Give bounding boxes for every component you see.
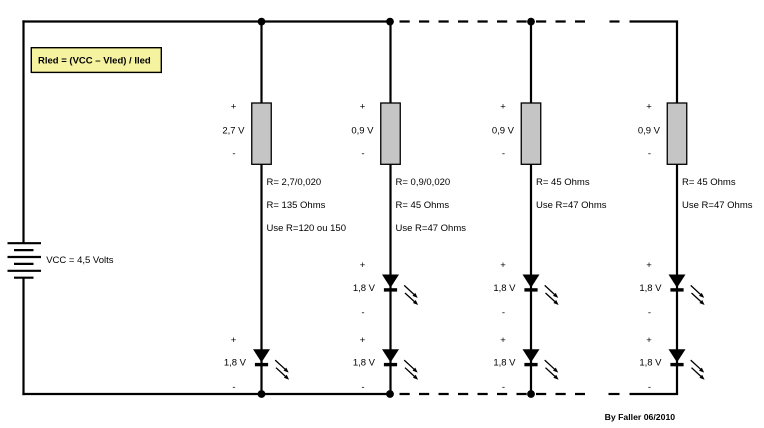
- svg-text:-: -: [361, 307, 364, 318]
- svg-text:+: +: [360, 102, 366, 113]
- svg-text:+: +: [500, 335, 506, 346]
- svg-text:Use R=47 Ohms: Use R=47 Ohms: [536, 200, 607, 211]
- svg-text:-: -: [648, 149, 651, 160]
- svg-text:+: +: [646, 102, 652, 113]
- svg-text:Use R=47 Ohms: Use R=47 Ohms: [396, 223, 467, 234]
- svg-text:1,8 V: 1,8 V: [493, 358, 516, 369]
- svg-text:-: -: [232, 149, 235, 160]
- svg-text:0,9 V: 0,9 V: [638, 126, 661, 137]
- svg-text:1,8 V: 1,8 V: [224, 358, 247, 369]
- svg-text:+: +: [360, 335, 366, 346]
- svg-text:R= 45 Ohms: R= 45 Ohms: [396, 200, 450, 211]
- svg-text:Rled = (VCC – Vled) / Iled: Rled = (VCC – Vled) / Iled: [38, 56, 151, 67]
- svg-text:0,9 V: 0,9 V: [492, 126, 515, 137]
- svg-text:R= 2,7/0,020: R= 2,7/0,020: [267, 177, 322, 188]
- svg-text:1,8 V: 1,8 V: [639, 358, 662, 369]
- svg-text:R= 0,9/0,020: R= 0,9/0,020: [396, 177, 451, 188]
- svg-text:1,8 V: 1,8 V: [493, 283, 516, 294]
- svg-text:1,8 V: 1,8 V: [353, 283, 376, 294]
- svg-text:2,7 V: 2,7 V: [222, 126, 245, 137]
- svg-text:0,9 V: 0,9 V: [351, 126, 374, 137]
- svg-text:+: +: [500, 102, 506, 113]
- svg-text:+: +: [231, 102, 237, 113]
- svg-text:+: +: [500, 260, 506, 271]
- svg-text:+: +: [646, 260, 652, 271]
- svg-text:By Faller 06/2010: By Faller 06/2010: [605, 412, 676, 422]
- svg-text:-: -: [648, 307, 651, 318]
- svg-text:R= 135 Ohms: R= 135 Ohms: [267, 200, 326, 211]
- svg-text:+: +: [646, 335, 652, 346]
- svg-text:+: +: [231, 335, 237, 346]
- svg-text:+: +: [360, 260, 366, 271]
- svg-text:R= 45 Ohms: R= 45 Ohms: [682, 177, 736, 188]
- svg-text:1,8 V: 1,8 V: [639, 283, 662, 294]
- svg-text:-: -: [502, 382, 505, 393]
- svg-text:Use R=47 Ohms: Use R=47 Ohms: [682, 200, 753, 211]
- svg-text:-: -: [502, 149, 505, 160]
- svg-text:-: -: [502, 307, 505, 318]
- svg-text:VCC = 4,5 Volts: VCC = 4,5 Volts: [46, 255, 114, 266]
- svg-text:-: -: [361, 382, 364, 393]
- svg-text:1,8 V: 1,8 V: [353, 358, 376, 369]
- svg-text:Use R=120 ou 150: Use R=120 ou 150: [267, 223, 347, 234]
- svg-text:-: -: [232, 382, 235, 393]
- svg-text:R= 45 Ohms: R= 45 Ohms: [536, 177, 590, 188]
- svg-text:-: -: [648, 382, 651, 393]
- svg-text:-: -: [361, 149, 364, 160]
